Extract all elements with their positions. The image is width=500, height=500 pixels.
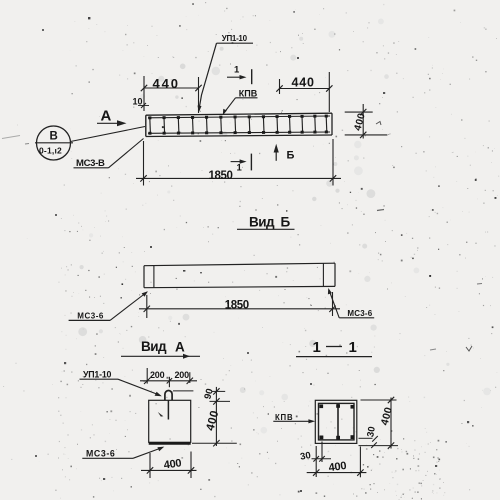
svg-text:В: В (50, 130, 58, 142)
svg-text:КПВ: КПВ (275, 413, 293, 422)
stirrup 14 (325, 115, 328, 134)
title View B (237, 210, 295, 230)
stirrup 13 (313, 115, 316, 134)
stirrup 5 (205, 116, 208, 134)
dimension 400 vertical (View A) (192, 387, 237, 447)
loop embedded leg (167, 400, 169, 419)
dimension 30 (bottom cover, right) (359, 426, 378, 448)
view arrow B (below beam) (274, 144, 295, 162)
end joint line left (153, 266, 155, 288)
section mark 1 (bottom) (231, 154, 252, 174)
svg-text:МС3-6: МС3-6 (77, 311, 104, 320)
stirrup 12 (301, 115, 304, 134)
label MS3-6 (View A) (82, 448, 133, 458)
svg-text:Вид: Вид (249, 215, 275, 230)
svg-text:1: 1 (237, 163, 243, 174)
label UP1-10 (View A) (80, 370, 119, 380)
svg-text:КПВ: КПВ (239, 88, 258, 98)
stirrup 9 (262, 115, 265, 134)
dimension 400 (section bottom) (307, 447, 367, 478)
leader MS3-6 left to beam end (110, 291, 148, 320)
beam elevation outline (146, 113, 332, 136)
svg-text:0-1,ı2: 0-1,ı2 (39, 145, 62, 155)
leader from KPV to beam (223, 98, 236, 115)
svg-text:А: А (101, 108, 112, 125)
svg-text:1: 1 (313, 339, 321, 356)
label MS3-V (top left) (74, 158, 109, 169)
dimension 400 vertical (section 1-1) (359, 397, 399, 449)
label MS3-6 (View B right) (339, 309, 374, 318)
stirrup 10 (276, 115, 279, 134)
dimension 90 (loop height) (173, 387, 225, 400)
svg-text:400: 400 (163, 457, 182, 471)
svg-text:400: 400 (328, 460, 347, 474)
dimension 440 (top left) (141, 76, 202, 113)
dimension 1850 (View B) (139, 292, 340, 318)
leader MS3-6 right to beam end (328, 288, 339, 318)
section mark 1 (top) (227, 65, 252, 85)
svg-text:1850: 1850 (209, 170, 233, 182)
beam plan view (View B) (144, 263, 335, 288)
svg-text:МС3-6: МС3-6 (86, 448, 115, 458)
svg-text:1: 1 (349, 339, 357, 356)
thick bottom edge (bearing plate MS3-6) (149, 442, 191, 445)
svg-text:1: 1 (234, 65, 240, 76)
svg-text:УП1-10: УП1-10 (222, 34, 248, 43)
top longitudinal bar (148, 116, 330, 118)
stirrup 8 (248, 115, 251, 134)
lifting loop label UP1-10 (top) (217, 34, 254, 43)
block cross-section (View A) (149, 400, 191, 442)
dimension 440 (top right) (276, 72, 332, 112)
dimension 400 (View A bottom) (141, 452, 197, 479)
svg-text:200: 200 (150, 370, 165, 380)
dimension 200 200 (View A top) (140, 368, 197, 387)
rebar dots (319, 404, 354, 439)
detail circle V with mark 0-1,2 (35, 126, 73, 160)
label MS3-6 (View B left) (69, 311, 110, 320)
label KPV (section 1-1) (273, 413, 315, 424)
dimension 1850 (elevation) (136, 139, 341, 186)
title section 1-1 (296, 339, 372, 357)
svg-text:30: 30 (365, 426, 378, 438)
leader UP1-10 to loop (118, 379, 162, 396)
stirrup 4 (191, 116, 194, 134)
stirrup 2 (163, 116, 166, 134)
vertical dimension 400 (right of beam) (345, 104, 388, 139)
middle rebar plane (337, 404, 339, 440)
small ink blob inside section (158, 412, 164, 417)
leader MS3-6 to bottom plate (133, 447, 164, 459)
stirrup 11 (288, 115, 291, 134)
stirrup rectangle (319, 403, 355, 440)
stirrup 7 (234, 116, 237, 135)
small dimension 10 at left end (133, 97, 150, 109)
end joint line right (322, 263, 324, 286)
svg-text:200: 200 (175, 370, 190, 380)
svg-text:А: А (175, 340, 185, 355)
svg-text:1850: 1850 (225, 300, 249, 312)
svg-text:10: 10 (133, 97, 143, 107)
svg-text:УП1-10: УП1-10 (83, 370, 112, 380)
leader from circle to beam left end (71, 127, 146, 142)
stirrup 1 (148, 116, 151, 134)
leader from MS3-V to beam bottom corner (109, 139, 144, 168)
bottom longitudinal bar (148, 132, 330, 133)
leader from UP1-10 to beam (198, 43, 217, 112)
section outline 1-1 (315, 400, 357, 443)
stirrup 6 (219, 116, 222, 135)
svg-text:440: 440 (153, 76, 180, 91)
dimension 30 (side cover, bottom-left) (299, 442, 331, 478)
rebar label KPV (top) (236, 88, 258, 98)
view arrow A (left) (97, 108, 127, 127)
svg-text:30: 30 (299, 450, 311, 463)
svg-text:Б: Б (287, 150, 295, 162)
lifting loop UP1-10 (165, 391, 172, 401)
svg-text:Вид: Вид (141, 339, 167, 354)
title View A (121, 339, 200, 359)
svg-text:440: 440 (292, 76, 315, 90)
svg-text:МС3-6: МС3-6 (347, 309, 372, 318)
stirrup 3 (177, 116, 180, 134)
